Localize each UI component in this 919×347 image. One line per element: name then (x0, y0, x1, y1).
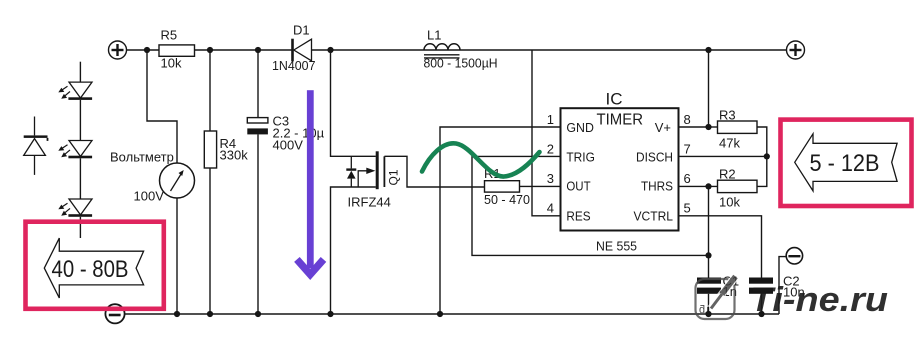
wire LED2-LED3 (79, 158, 81, 199)
capacitor C2 (749, 274, 805, 300)
wire R4 branch top (209, 50, 211, 131)
svg-text:Ti-ne.ru: Ti-ne.ru (750, 281, 888, 319)
terminal - output-left (105, 304, 124, 323)
terminal + output-right (787, 41, 805, 59)
svg-text:ƌɹ: ƌɹ (699, 304, 709, 316)
node DISCH junction (764, 153, 770, 159)
terminal + input (109, 41, 127, 59)
wire LED3 bottom stub (79, 217, 81, 238)
svg-text:50 - 470: 50 - 470 (484, 192, 530, 207)
svg-text:R5: R5 (161, 28, 178, 43)
node C3 bottom junction (255, 311, 261, 317)
wire top rail right segment (312, 49, 787, 51)
svg-text:NE 555: NE 555 (596, 239, 637, 254)
node junction after D1 (327, 47, 333, 53)
svg-text:IRFZ44: IRFZ44 (348, 195, 391, 210)
svg-text:47k: 47k (719, 136, 740, 151)
resistor R3 (718, 121, 758, 133)
svg-text:1: 1 (547, 112, 554, 127)
svg-text:Q1: Q1 (387, 169, 401, 185)
capacitor C3 (247, 114, 324, 153)
annotation pink box 5-12V (781, 120, 912, 206)
svg-text:IC: IC (606, 90, 623, 109)
svg-text:330k: 330k (220, 148, 249, 163)
svg-text:5 - 12В: 5 - 12В (810, 150, 880, 177)
node junction after + input (144, 47, 150, 53)
wire top rail left segment (127, 49, 160, 51)
node pin8 junction (705, 124, 711, 130)
wire THRS node down to timing node (708, 186, 710, 255)
node C2 bottom junction (758, 311, 764, 317)
wire C1 to bottom rail (708, 294, 710, 314)
svg-text:VCTRL: VCTRL (634, 209, 674, 224)
svg-text:7: 7 (684, 141, 691, 156)
svg-text:400V: 400V (273, 138, 304, 153)
wire V+ pin8 to top rail node (679, 50, 709, 127)
svg-text:100V: 100V (134, 189, 165, 204)
svg-text:8: 8 (684, 112, 691, 127)
wire voltmeter to bottom rail (176, 198, 178, 314)
node junction top right (705, 47, 711, 53)
terminal - output-right (786, 248, 802, 264)
LED chain wire top stub (79, 62, 81, 82)
wire R4 to bottom rail (209, 168, 211, 314)
wire R3 right down to DISCH line (757, 127, 767, 186)
wire timing node down to C1 (708, 255, 710, 277)
wire Q1 source down to bottom rail (331, 187, 376, 314)
LED D3 (58, 141, 92, 159)
wire DISCH pin7 (679, 155, 767, 157)
svg-text:DISCH: DISCH (636, 150, 673, 165)
svg-text:4: 4 (547, 201, 554, 216)
wire C3 to bottom rail (257, 134, 259, 314)
node R4 bottom junction (207, 311, 213, 317)
svg-text:Вольтметр: Вольтметр (110, 150, 174, 165)
wire TRIG pin2 to timing node (472, 156, 709, 255)
node junction before D1 (255, 47, 261, 53)
node C1 bottom junction (705, 311, 711, 317)
svg-text:6: 6 (684, 171, 691, 186)
wire D1 node down to Q1 drain (331, 50, 376, 156)
wire R1 to OUT pin3 (520, 185, 561, 187)
node Q1 source bottom junction (327, 311, 333, 317)
wire LED1-LED2 (79, 100, 81, 141)
wire C2 to bottom rail (761, 294, 763, 314)
svg-text:GND: GND (566, 120, 594, 135)
LED D4 (58, 199, 92, 217)
svg-text:OUT: OUT (566, 179, 590, 194)
svg-text:10k: 10k (719, 195, 740, 210)
diode D5 spare (24, 117, 48, 175)
svg-text:10k: 10k (161, 56, 182, 71)
LED D2 (58, 82, 92, 100)
svg-text:1N4007: 1N4007 (272, 58, 316, 73)
svg-text:THRS: THRS (641, 179, 673, 194)
node voltmeter bottom junction (174, 311, 180, 317)
inductor L1 (424, 44, 460, 58)
wire THRS pin6 to R2 (679, 185, 718, 187)
annotation purple arrow (297, 90, 324, 274)
wire bottom rail (125, 313, 779, 315)
resistor R2 (718, 180, 758, 192)
annotation green sine wave (422, 143, 540, 176)
annotation pink box 40-80V (26, 222, 164, 309)
svg-text:5: 5 (684, 201, 691, 216)
diode D1 (272, 23, 316, 73)
svg-text:V+: V+ (655, 120, 671, 135)
resistor R1 (485, 181, 520, 192)
wire minus-right terminal to bottom rail (779, 257, 786, 314)
svg-text:RES: RES (566, 209, 590, 224)
wire top rail middle segment (195, 49, 292, 51)
node THRS junction (705, 183, 711, 189)
transistor Q1 (346, 151, 400, 209)
svg-text:3: 3 (547, 171, 554, 186)
svg-text:TIMER: TIMER (597, 112, 644, 129)
watermark tool icon (696, 277, 736, 320)
resistor R5 (159, 45, 195, 56)
svg-text:R2: R2 (719, 167, 736, 182)
op-amp U1 IC NE555 box (561, 108, 679, 230)
wire VCTRL pin5 to C2 (679, 216, 762, 278)
capacitor C1 (697, 274, 739, 300)
wire GND pin1 to bottom rail (440, 127, 561, 314)
wire pin8 node to R3 (709, 126, 718, 128)
node junction after R5 (207, 47, 213, 53)
wire RES pin4 to top rail (532, 50, 561, 216)
node GND bottom junction (437, 311, 443, 317)
wire C3 branch top (257, 50, 259, 118)
svg-text:TRIG: TRIG (566, 150, 595, 165)
svg-text:800 - 1500µH: 800 - 1500µH (424, 55, 498, 70)
wire Q1 gate to OUT line (384, 156, 484, 187)
node timing junction (705, 252, 711, 258)
svg-text:D1: D1 (293, 23, 310, 38)
resistor R4 (204, 131, 216, 168)
svg-text:40 - 80В: 40 - 80В (52, 256, 129, 283)
voltmeter M1 (110, 150, 195, 204)
svg-text:R3: R3 (719, 108, 736, 123)
svg-text:2: 2 (547, 141, 554, 156)
svg-text:L1: L1 (427, 28, 441, 43)
wire voltmeter branch (147, 50, 177, 163)
